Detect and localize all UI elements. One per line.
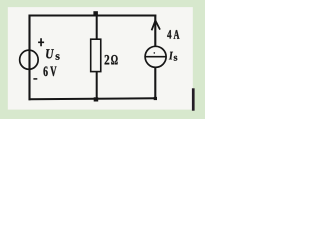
current source Is: ink speck inside circle [154, 52, 156, 54]
resistor R1: body rectangle [91, 39, 101, 71]
current source Is: circle (DIN symbol) [145, 46, 166, 67]
label Is (subscript s) [174, 56, 178, 61]
wire: top node (from Us plus terminal to Is) [29, 15, 157, 17]
wire: right branch upper (arrow segment) [154, 15, 156, 47]
node: top junction dot [93, 11, 98, 16]
label Us (subscript s) [56, 54, 60, 59]
label value 4 A (digit 4) [167, 30, 171, 38]
label value 2 ohm (digit 2) [105, 55, 110, 64]
label Us (U italic) [46, 49, 54, 58]
label value 6 V (digit 6) [44, 66, 48, 76]
label value 6 V (letter V) [50, 66, 56, 76]
wire: bottom node [29, 98, 157, 99]
voltage source Us: circle (DIN symbol, lead passes through) [20, 50, 39, 69]
wire: middle branch (through R) [96, 16, 98, 99]
current arrow of Is (pointing up, on right branch) [152, 21, 160, 31]
label Is (I italic) [169, 52, 173, 60]
wire: left branch (through Us) [28, 15, 30, 101]
current source Is: horizontal bar [145, 56, 166, 58]
stray scan mark: vertical bar at right edge [192, 88, 195, 110]
voltage source Us: polarity plus sign [38, 38, 44, 46]
wire: right branch lower [154, 67, 156, 99]
wire: bottom-right corner ink blob [154, 97, 157, 100]
label value 4 A (letter A) [174, 30, 180, 39]
label value 2 ohm (omega) [111, 55, 117, 64]
node: bottom junction dot [94, 97, 99, 101]
voltage source Us: polarity minus sign [33, 78, 37, 80]
